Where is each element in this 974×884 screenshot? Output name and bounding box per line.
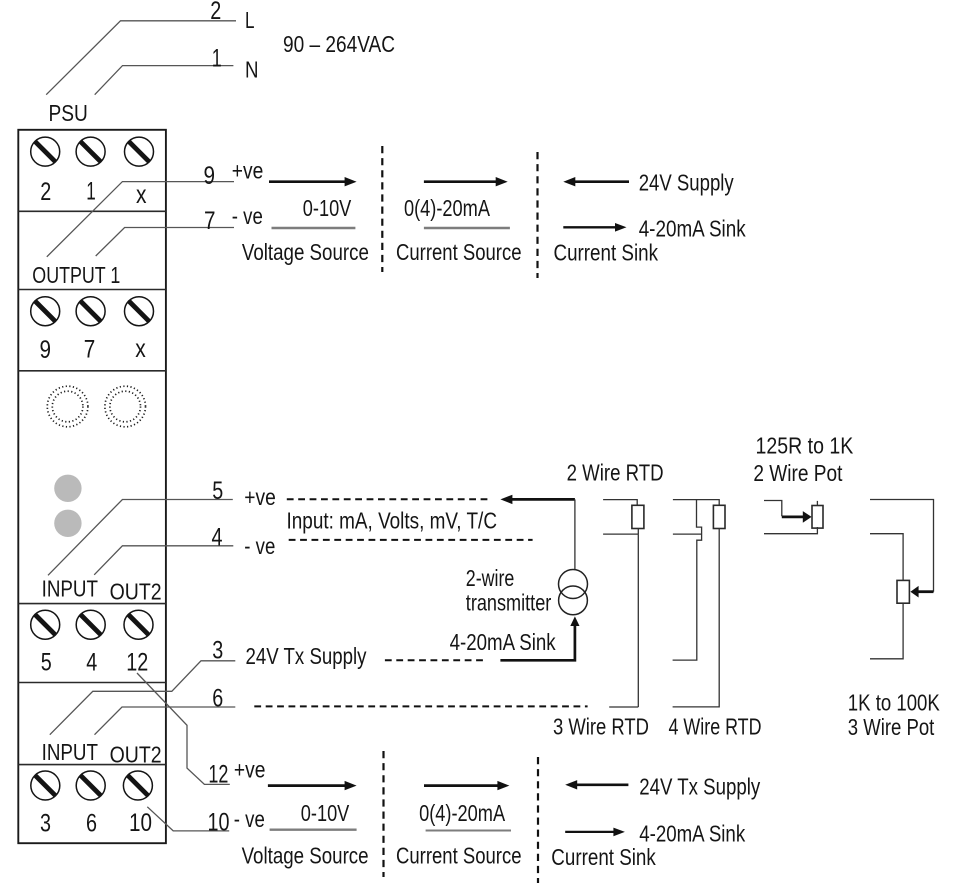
svg-text:0(4)-20mA: 0(4)-20mA bbox=[419, 800, 506, 826]
svg-text:2: 2 bbox=[40, 178, 51, 206]
svg-text:2-wire: 2-wire bbox=[466, 565, 515, 591]
screw terminal 6 bbox=[76, 771, 105, 800]
svg-text:- ve: - ve bbox=[244, 533, 275, 559]
wire 7 (-ve output 1) bbox=[96, 228, 234, 257]
svg-text:+ve: +ve bbox=[244, 484, 275, 510]
svg-text:- ve: - ve bbox=[234, 806, 265, 832]
svg-text:2 Wire Pot: 2 Wire Pot bbox=[753, 460, 842, 486]
svg-text:transmitter: transmitter bbox=[466, 590, 552, 616]
svg-text:PSU: PSU bbox=[49, 100, 88, 126]
svg-text:1K to 100K: 1K to 100K bbox=[848, 690, 941, 716]
svg-text:INPUT: INPUT bbox=[42, 576, 98, 602]
RTD resistor R2 top lead bbox=[673, 500, 719, 506]
LED indicator 2 bbox=[54, 510, 81, 537]
svg-text:6: 6 bbox=[86, 810, 97, 838]
svg-text:24V Supply: 24V Supply bbox=[639, 170, 734, 196]
svg-text:Current Source: Current Source bbox=[396, 843, 522, 869]
svg-text:5: 5 bbox=[212, 477, 223, 505]
return line voltage source (top) bbox=[272, 227, 356, 229]
dashed wire 24V tx supply bbox=[385, 659, 484, 661]
svg-text:2 Wire RTD: 2 Wire RTD bbox=[567, 459, 664, 485]
svg-text:3 Wire Pot: 3 Wire Pot bbox=[848, 714, 935, 740]
potentiometer P2 body bbox=[897, 580, 909, 603]
screw terminal 7 bbox=[76, 297, 105, 326]
svg-text:9: 9 bbox=[40, 336, 52, 364]
svg-text:0-10V: 0-10V bbox=[301, 800, 350, 826]
wire transmitter top lead bbox=[574, 499, 576, 569]
separator dashed (bottom 1) bbox=[382, 751, 384, 877]
potentiometer P1 bottom lead bbox=[764, 527, 817, 534]
svg-text:+ve: +ve bbox=[232, 158, 263, 184]
svg-text:1: 1 bbox=[212, 45, 222, 73]
return line current source (top) bbox=[424, 227, 510, 229]
svg-text:+ve: +ve bbox=[234, 757, 266, 783]
svg-text:12: 12 bbox=[126, 649, 148, 677]
screw terminal 12 bbox=[124, 610, 153, 639]
svg-text:4-20mA Sink: 4-20mA Sink bbox=[639, 216, 746, 242]
wire right lead 4-wire RTD bbox=[673, 529, 720, 707]
svg-text:x: x bbox=[135, 335, 146, 363]
svg-text:0(4)-20mA: 0(4)-20mA bbox=[404, 195, 491, 221]
separator dashed (bottom 2) bbox=[537, 757, 539, 883]
screw terminal 10 bbox=[123, 771, 152, 800]
screw terminal 3 bbox=[31, 771, 60, 800]
RTD resistor R1 bbox=[632, 505, 644, 528]
arrow transmitter to +ve input bbox=[500, 495, 575, 504]
svg-text:3: 3 bbox=[212, 637, 223, 665]
svg-text:12: 12 bbox=[208, 761, 228, 789]
wire sink into transmitter with up arrow bbox=[500, 616, 579, 660]
svg-text:10: 10 bbox=[129, 809, 152, 837]
LED indicator 1 bbox=[54, 475, 81, 502]
svg-text:L: L bbox=[245, 7, 255, 33]
svg-text:4: 4 bbox=[212, 524, 223, 552]
svg-text:Input: mA, Volts, mV, T/C: Input: mA, Volts, mV, T/C bbox=[287, 508, 498, 534]
svg-text:Voltage Source: Voltage Source bbox=[242, 239, 369, 265]
svg-text:90 – 264VAC: 90 – 264VAC bbox=[283, 31, 395, 57]
svg-text:4: 4 bbox=[86, 649, 97, 677]
arrow voltage source out (top) bbox=[269, 177, 357, 186]
svg-text:OUT2: OUT2 bbox=[110, 579, 162, 605]
terminal block body bbox=[18, 130, 166, 843]
potentiometer P2 wiper arrow bbox=[910, 586, 933, 598]
screw terminal 9 bbox=[31, 297, 60, 326]
svg-text:0-10V: 0-10V bbox=[303, 195, 352, 221]
svg-text:Current Sink: Current Sink bbox=[554, 239, 659, 265]
wire third lead 3-wire RTD bbox=[609, 534, 638, 707]
section divider 2 bbox=[18, 289, 166, 291]
wire 12 (+ve output 2) bbox=[137, 673, 230, 784]
RTD resistor R1 top lead bbox=[603, 500, 637, 506]
svg-text:125R to 1K: 125R to 1K bbox=[756, 433, 854, 459]
arrow current source out (bottom) bbox=[424, 781, 509, 790]
svg-text:4-20mA Sink: 4-20mA Sink bbox=[639, 821, 745, 847]
potentiometer P1 wiper arrow bbox=[782, 511, 812, 523]
svg-text:OUT2: OUT2 bbox=[110, 742, 162, 768]
screw terminal 2 bbox=[31, 137, 60, 166]
wire N (mains neutral) bbox=[95, 66, 234, 95]
svg-text:- ve: - ve bbox=[232, 203, 263, 229]
trimmer access hole 1 bbox=[47, 386, 88, 427]
svg-text:INPUT: INPUT bbox=[42, 739, 98, 765]
svg-text:24V Tx Supply: 24V Tx Supply bbox=[639, 774, 760, 800]
screw terminal 4 bbox=[76, 610, 105, 639]
screw terminal x (out1) bbox=[125, 297, 154, 326]
wire 4 (-ve input) bbox=[94, 546, 233, 575]
arrow current source out (top) bbox=[424, 177, 508, 186]
section divider 6 bbox=[18, 764, 166, 766]
potentiometer P2 bottom lead bbox=[870, 603, 903, 659]
svg-text:2: 2 bbox=[210, 0, 221, 25]
arrow voltage source out (bottom) bbox=[268, 781, 357, 790]
svg-text:9: 9 bbox=[204, 162, 216, 190]
potentiometer P1 top lead bbox=[764, 501, 782, 517]
wire 3 (24V tx supply) bbox=[50, 661, 236, 735]
trimmer access hole 2 bbox=[105, 386, 146, 427]
dashed wire +ve input bbox=[287, 498, 488, 500]
separator dashed (top 2) bbox=[536, 152, 538, 278]
label 2-wire transmitter bbox=[466, 565, 552, 616]
wire 5 (+ve input) bbox=[48, 500, 233, 576]
svg-text:7: 7 bbox=[204, 207, 216, 235]
svg-text:Voltage Source: Voltage Source bbox=[242, 843, 369, 869]
wire 10 (-ve output 2) bbox=[147, 807, 229, 831]
svg-text:4-20mA Sink: 4-20mA Sink bbox=[450, 629, 556, 655]
section divider 1 bbox=[18, 210, 166, 212]
screw terminal x (psu) bbox=[125, 137, 154, 166]
transmitter symbol (two circles) bbox=[559, 570, 588, 615]
return line voltage source (bottom) bbox=[270, 829, 357, 831]
svg-text:1: 1 bbox=[86, 178, 96, 206]
separator dashed (top 1) bbox=[381, 146, 383, 272]
dashed wire 6 bbox=[254, 705, 587, 707]
RTD resistor R2 bottom lead bbox=[673, 533, 702, 535]
svg-text:x: x bbox=[136, 181, 147, 209]
svg-text:7: 7 bbox=[84, 336, 96, 364]
svg-text:Current Sink: Current Sink bbox=[551, 844, 656, 870]
wire 9 (+ve output 1) bbox=[47, 182, 234, 257]
svg-text:OUTPUT 1: OUTPUT 1 bbox=[32, 262, 120, 288]
svg-text:5: 5 bbox=[41, 649, 52, 677]
section divider 4 bbox=[18, 603, 166, 605]
wire L (mains live) bbox=[46, 21, 236, 95]
arrow 4-20mA sink (bottom) bbox=[565, 828, 625, 837]
RTD resistor R1 bottom lead bbox=[603, 529, 638, 535]
wire 6 (input common) bbox=[95, 707, 236, 735]
potentiometer P2 top lead bbox=[870, 500, 934, 592]
section divider 5 bbox=[18, 682, 166, 684]
section divider 3 bbox=[18, 370, 166, 372]
arrow 24V supply in (top) bbox=[563, 177, 629, 186]
potentiometer P1 body bbox=[812, 501, 823, 528]
screw terminal 5 bbox=[31, 610, 60, 639]
return line current source (bottom) bbox=[426, 830, 511, 832]
svg-text:3 Wire RTD: 3 Wire RTD bbox=[553, 714, 649, 740]
svg-text:3: 3 bbox=[40, 810, 51, 838]
arrow 24V tx supply in (bottom) bbox=[565, 780, 628, 789]
RTD resistor R2 bbox=[713, 505, 725, 528]
svg-text:N: N bbox=[245, 57, 259, 83]
screw terminal 1 bbox=[76, 137, 105, 166]
wire sense lead 4-wire RTD bbox=[673, 500, 702, 660]
svg-text:10: 10 bbox=[208, 809, 230, 837]
svg-text:Current Source: Current Source bbox=[396, 239, 522, 265]
potentiometer P2 middle lead bbox=[870, 534, 903, 581]
dashed wire -ve input bbox=[289, 539, 533, 541]
svg-text:4 Wire RTD: 4 Wire RTD bbox=[669, 714, 762, 740]
arrow 4-20mA sink (top) bbox=[563, 223, 626, 232]
svg-text:6: 6 bbox=[212, 685, 223, 713]
svg-text:24V Tx Supply: 24V Tx Supply bbox=[246, 643, 367, 669]
